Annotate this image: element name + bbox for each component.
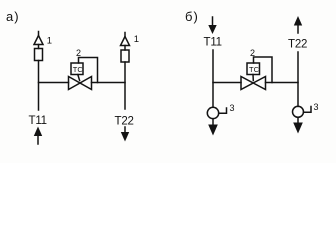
discharge arrow right (b), down <box>293 123 303 134</box>
valve stem (b) <box>252 75 254 81</box>
wire below pump left <box>212 119 214 125</box>
svg-text:T11: T11 <box>29 115 47 127</box>
control signal loop (b) <box>254 57 273 83</box>
pipe right of valve (b) <box>266 82 299 84</box>
pump 3 left (b): circle <box>207 107 218 118</box>
leader to label 3 left <box>219 108 227 113</box>
svg-text:TC: TC <box>73 65 84 74</box>
flow arrow in (b), down <box>212 17 214 26</box>
svg-text:3: 3 <box>314 102 319 112</box>
svg-text:2: 2 <box>76 48 81 58</box>
sensor 1 right: triangle <box>121 37 130 46</box>
svg-text:а): а) <box>6 9 20 24</box>
wire: right riser T22 (a) <box>124 62 126 109</box>
controller TC box (a) <box>71 63 83 75</box>
sensor 1 right: link wire <box>124 46 126 51</box>
pipe left of valve (a) <box>39 82 69 84</box>
svg-text:б): б) <box>185 9 199 24</box>
pump 3 right (b): circle <box>293 106 304 117</box>
svg-text:T11: T11 <box>204 37 222 49</box>
svg-text:T22: T22 <box>288 39 307 51</box>
wire: left riser T11 (a) <box>38 61 40 111</box>
pipe left of valve (b) <box>213 82 241 84</box>
pipe right of valve (a) <box>92 82 126 84</box>
flow arrow out (b), up <box>297 25 299 33</box>
svg-text:TC: TC <box>249 65 260 74</box>
wire: left riser (b) <box>212 50 214 107</box>
svg-text:1: 1 <box>47 36 52 47</box>
sensor 1 left: link wire <box>38 45 40 49</box>
sensor 1 right: apex tick <box>124 33 126 37</box>
leader to label 3 right <box>304 107 312 113</box>
svg-text:1: 1 <box>134 34 139 45</box>
wire: right riser (b) <box>297 52 299 106</box>
sensor 1 right: thermowell body <box>121 50 129 62</box>
flow arrow out (a), down <box>124 127 126 133</box>
control signal loop (a) <box>79 58 98 83</box>
control valve (a): bowtie <box>69 77 92 90</box>
svg-text:T22: T22 <box>115 116 134 128</box>
wire below pump right <box>297 117 299 122</box>
controller TC box (b) <box>247 63 260 75</box>
flow arrow in (a), up <box>37 135 39 144</box>
sensor 1 left: thermowell body <box>35 49 43 61</box>
discharge arrow left (b), down <box>208 125 218 136</box>
control valve (b): bowtie <box>241 77 266 90</box>
sensor 1 left: apex tick <box>38 32 40 36</box>
sensor 1 left: triangle <box>34 36 43 45</box>
svg-text:3: 3 <box>230 103 235 113</box>
valve stem (a) <box>78 75 80 81</box>
